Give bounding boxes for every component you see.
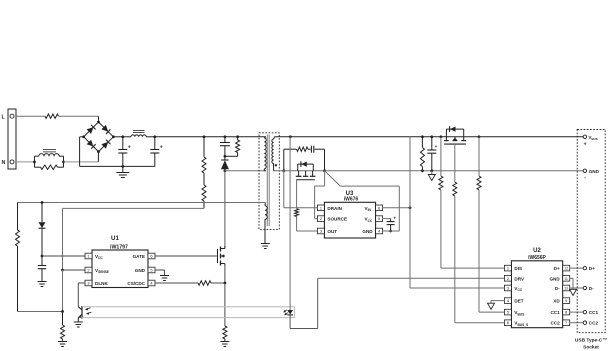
svg-text:Socket: Socket: [583, 344, 599, 350]
U2 pin label SD: [553, 299, 560, 304]
U1 pin label DLNK: [95, 281, 108, 286]
svg-text:CC1: CC1: [589, 310, 599, 315]
transformer T1 primary winding: [264, 137, 266, 171]
diode bridge D2 (top-right): [101, 125, 110, 134]
svg-text:USB Type-C™: USB Type-C™: [575, 337, 607, 343]
ground sense resistor: [220, 342, 229, 347]
wire sec bottom: [275, 170, 325, 172]
svg-text:6: 6: [150, 254, 152, 259]
svg-text:N: N: [2, 160, 6, 166]
wire to U2 vbus: [479, 190, 504, 312]
svg-text:11: 11: [564, 277, 568, 281]
junction sec bottom left: [282, 169, 285, 172]
svg-text:DIS: DIS: [514, 266, 522, 271]
svg-text:6: 6: [507, 320, 509, 325]
U3 part number: [344, 197, 359, 203]
ground U1 gnd pin: [160, 276, 169, 281]
inductor L2 filter: [123, 130, 146, 136]
wire N to bridge: [64, 152, 99, 162]
svg-text:3: 3: [507, 286, 509, 291]
terminal CC1: [583, 310, 598, 315]
svg-text:1: 1: [320, 205, 322, 210]
svg-text:1: 1: [507, 266, 509, 271]
capacitor C out: [427, 137, 437, 171]
wire U3 vcc: [383, 218, 391, 220]
junction U3 vcc cap gnd: [389, 230, 392, 233]
wire opto box right edge: [294, 307, 296, 318]
U3 pin label SOURCE: [327, 217, 347, 222]
wire L to bridge: [59, 116, 99, 122]
wire bridge out to rail: [113, 136, 122, 138]
transistor Q2 sync rect: [296, 161, 316, 180]
U1 pin 1 box: [85, 253, 92, 259]
svg-text:D-: D-: [555, 286, 560, 291]
svg-text:9: 9: [565, 298, 567, 303]
transistor Q1: [218, 246, 225, 266]
U1 pin label VCC: [95, 254, 103, 260]
capacitor C sr snubber: [308, 146, 325, 153]
svg-text:12: 12: [564, 267, 568, 271]
wire HV rail: [155, 136, 266, 138]
svg-text:5: 5: [378, 216, 380, 221]
diode D clamp: [221, 156, 229, 171]
svg-text:CC2: CC2: [550, 321, 560, 326]
svg-text:8: 8: [565, 310, 567, 315]
U2 pin label D+: [554, 266, 560, 271]
svg-text:5: 5: [150, 268, 152, 273]
wire U3 gnd: [383, 230, 400, 232]
U3 pin label OUT: [327, 229, 337, 234]
junction vin rail: [409, 206, 412, 209]
resistor R aux sense: [16, 203, 20, 312]
svg-text:3: 3: [87, 281, 89, 286]
terminal D-: [583, 286, 594, 291]
svg-text:2: 2: [87, 268, 89, 273]
capacitor C1 bulk: [118, 137, 131, 167]
U2 pin 12 box: [563, 265, 570, 271]
svg-text:GND: GND: [362, 229, 373, 234]
capacitor C U3 vcc: [387, 215, 397, 231]
capacitor C2 bulk: [146, 137, 163, 167]
diode opto LED: [287, 310, 293, 315]
junction sr source: [323, 169, 326, 172]
resistor R sr snubber: [297, 147, 309, 151]
op-amp U3 body: [324, 202, 375, 238]
junction clamp cap top: [224, 135, 227, 138]
wire sr gate lead: [296, 180, 298, 209]
ground secondary marker: [428, 171, 435, 181]
resistor R dummy load: [420, 137, 424, 171]
svg-text:U1: U1: [111, 235, 119, 242]
wire opto box top: [82, 306, 295, 308]
U2 pin 2 box: [504, 276, 511, 282]
wire aux line: [18, 202, 266, 204]
junction drain node: [224, 169, 227, 172]
inductor CM choke L1: [35, 150, 64, 168]
U3 label: [346, 191, 354, 197]
U2 pin 7 box: [563, 320, 570, 326]
junction dummy load top: [421, 135, 424, 138]
wire L line: [16, 115, 45, 117]
wire U3 vin: [383, 207, 410, 209]
junction cap C1 top: [121, 135, 124, 138]
wire opto box bottom: [82, 317, 295, 319]
resistor R vbus sense: [477, 137, 481, 190]
svg-text:iW676: iW676: [344, 197, 359, 203]
junction VBUS sense feed: [478, 135, 481, 138]
svg-text:7: 7: [565, 320, 567, 325]
transformer T1 aux winding: [265, 203, 267, 244]
U2 pin label GND: [549, 276, 560, 281]
svg-text:+: +: [160, 144, 163, 150]
wire U2 CC2: [570, 322, 584, 324]
resistor R snubber clamp: [225, 137, 240, 157]
optocoupler LED arrows: [283, 310, 288, 315]
svg-text:OUT: OUT: [327, 229, 337, 234]
svg-text:2: 2: [507, 276, 509, 281]
svg-text:SOURCE: SOURCE: [327, 217, 347, 222]
wire Q1 source: [224, 264, 226, 284]
resistor R dis divider: [439, 137, 443, 190]
ground primary earth: [116, 166, 129, 177]
wire gate res to out: [297, 217, 317, 232]
U3 pin 3 box: [317, 228, 324, 234]
wire U2 det to gnd: [491, 301, 504, 304]
U1 pin label GND: [135, 268, 146, 273]
junction vsense-aux: [61, 310, 64, 313]
resistor R vsense lower: [61, 312, 65, 342]
diode bridge D3 (left-bottom): [87, 140, 96, 149]
svg-text:U2: U2: [533, 248, 541, 254]
resistor R across choke: [35, 165, 64, 169]
U1 pin label CSCDC: [127, 281, 145, 286]
junction out cap top: [430, 135, 433, 138]
U1 pin 2 box: [85, 267, 92, 273]
wire to U2 dis: [441, 190, 505, 268]
ground vsense resistor: [58, 342, 67, 347]
U2 label: [533, 248, 541, 254]
svg-text:5: 5: [507, 310, 509, 315]
diode bridge D4 (bottom-right): [101, 140, 110, 149]
wire gate: [155, 255, 218, 257]
svg-text:DLNK: DLNK: [95, 281, 108, 286]
U2 pin 6 box: [504, 320, 511, 326]
wire U2 D-: [570, 287, 584, 289]
U2 pin 10 box: [563, 285, 570, 291]
junction clamp res top: [236, 135, 239, 138]
wire to U2 vbus_s: [455, 196, 505, 323]
ground U2 det: [488, 303, 495, 309]
USB Type-C socket dashed box: [577, 130, 605, 333]
svg-text:CS/CDC: CS/CDC: [127, 281, 145, 286]
U1 pin label VSENSE: [95, 268, 109, 274]
svg-text:GND: GND: [549, 276, 560, 281]
capacitor C snubber clamp: [220, 137, 230, 157]
U2 pin 9 box: [563, 298, 570, 304]
ground opto emitter: [74, 322, 83, 327]
terminal CC2: [583, 321, 598, 326]
wire primary bottom: [225, 170, 266, 172]
svg-text:CC2: CC2: [589, 321, 599, 326]
junction N filter right: [62, 161, 65, 164]
resistor Rln2: [202, 173, 206, 208]
wire VBUS rail: [275, 136, 584, 138]
svg-text:GND: GND: [135, 268, 146, 273]
wire drain to Q1: [224, 171, 226, 249]
junction aux-vcc: [41, 201, 44, 204]
wire vcc to U1: [42, 255, 85, 257]
op-amp U2 body: [511, 261, 562, 328]
ground vcc cap: [38, 282, 47, 287]
svg-text:iW1797: iW1797: [110, 244, 128, 250]
resistor R sr gate: [295, 209, 299, 217]
op-amp U1 body: [92, 250, 148, 288]
wire vin rail to U2 vcc: [410, 137, 504, 288]
U2 part number: [528, 255, 546, 261]
wire sr source to U3 gnd: [325, 171, 400, 231]
svg-text:1: 1: [87, 254, 89, 259]
junction cap C2 top: [153, 135, 156, 138]
U2 pin 8 box: [563, 309, 570, 315]
U2 pin label DRV: [514, 276, 525, 281]
U2 pin label CC2: [550, 321, 560, 326]
svg-text:DET: DET: [514, 299, 523, 304]
terminal GND: [583, 169, 599, 181]
wire U1 cs: [155, 282, 198, 284]
diode D vcc: [39, 203, 46, 257]
U3 pin 5 box: [376, 216, 383, 222]
bridge rectifier BR1: [82, 121, 115, 153]
svg-text:+: +: [435, 144, 438, 149]
optocoupler light arrows: [85, 308, 91, 315]
resistor R cs: [198, 281, 211, 285]
wire aux sense to vsense: [18, 311, 63, 313]
U3 pin label GND: [362, 229, 373, 234]
U2 pin label CC1: [550, 310, 560, 315]
svg-text:GATE: GATE: [133, 254, 145, 259]
junction N filter left: [33, 161, 36, 164]
svg-text:D-: D-: [589, 286, 594, 291]
wire dlnk to opto: [78, 283, 85, 307]
U1 label: [111, 235, 119, 242]
U1 pin label GATE: [133, 254, 145, 259]
transistor Q3 load switch: [444, 126, 466, 144]
wire U1 gnd: [155, 270, 165, 276]
node N label: [2, 160, 6, 166]
U2 pin label DET: [514, 299, 523, 304]
wire U3 source jog: [315, 171, 325, 219]
terminal VBUS: [583, 135, 598, 148]
U2 pin label VBUS: [514, 310, 524, 316]
transformer T1 secondary winding: [272, 137, 277, 171]
wire secondary gnd bus: [325, 170, 584, 172]
wire snubber left riser: [284, 149, 297, 171]
wire vbus to opto led: [289, 137, 291, 310]
junction out cap bottom: [430, 169, 433, 172]
svg-text:+: +: [584, 141, 587, 147]
U3 pin label VCC: [365, 217, 373, 223]
U1 pin 3 box: [85, 280, 92, 286]
junction vsense pin tap: [61, 269, 64, 272]
wire U2 gnd pin: [570, 278, 573, 289]
resistor R pmos gate: [453, 182, 457, 196]
U2 pin label VBUS_S: [514, 321, 528, 327]
U2 pin 11 box: [563, 276, 570, 282]
U3 pin label DRAIN: [327, 206, 342, 211]
U2 pin 5 box: [504, 309, 511, 315]
svg-text:+: +: [393, 215, 396, 220]
U2 pin label DIS: [514, 266, 522, 271]
svg-text:2: 2: [320, 216, 322, 221]
wire snubber right riser: [324, 149, 326, 171]
wire pmos gate lead: [454, 144, 456, 182]
svg-text:D+: D+: [554, 266, 560, 271]
junction clamp rc bottom: [224, 155, 227, 158]
svg-text:6: 6: [378, 205, 380, 210]
wire vsense line: [63, 208, 205, 270]
U1 pin 4 box: [148, 280, 155, 286]
U1 part number: [110, 244, 128, 250]
U1 pin 5 box: [148, 267, 155, 273]
junction dummy load bottom: [421, 169, 424, 172]
wire opto led cathode to DRV: [290, 278, 504, 328]
terminal D+: [583, 266, 595, 271]
U3 pin 4 box: [376, 228, 383, 234]
svg-text:DRAIN: DRAIN: [327, 206, 342, 211]
junction DIS feed: [440, 135, 443, 138]
U2 pin label VCC: [514, 286, 522, 292]
transformer T1 dashed box: [259, 133, 279, 230]
capacitor C vcc: [38, 256, 47, 282]
resistor Rln1: [202, 137, 206, 173]
optocoupler phototransistor: [78, 306, 82, 322]
svg-text:+: +: [128, 144, 131, 150]
fuse resistor F1: [45, 114, 59, 118]
transformer T1 core: [267, 135, 269, 227]
svg-text:3: 3: [320, 229, 322, 234]
U3 pin 6 box: [376, 205, 383, 211]
U2 pin 3 box: [504, 285, 511, 291]
U2 pin label D-: [555, 286, 560, 291]
U1 pin 6 box: [148, 253, 155, 259]
junction opto feed: [289, 135, 292, 138]
junction vcc node: [41, 255, 44, 258]
U3 pin label VIN: [365, 206, 372, 212]
svg-text:GND: GND: [589, 169, 600, 174]
U2 pin 1 box: [504, 265, 511, 271]
svg-text:DRV: DRV: [514, 276, 525, 281]
ground U2 gnd pin: [570, 289, 577, 295]
wire vsense lower: [62, 270, 64, 312]
wire U2 CC1: [570, 311, 584, 313]
resistor R sense: [223, 283, 227, 342]
wire bridge negative riser: [80, 137, 84, 167]
wire U2 D+: [570, 267, 584, 269]
svg-text:XD: XD: [553, 299, 560, 304]
wire U3 drain: [284, 171, 317, 208]
diode bridge D1 (left-top): [87, 125, 96, 134]
junction C1 bottom: [121, 165, 124, 168]
wire vsense to U1 pin2: [63, 269, 86, 271]
U3 pin 1 box: [317, 205, 324, 211]
USB socket label: [575, 337, 607, 350]
AC input terminal block J1: [8, 109, 16, 169]
U3 pin 2 box: [317, 216, 324, 222]
wire cs to source: [211, 282, 225, 284]
svg-text:CC1: CC1: [550, 310, 560, 315]
node L label: [2, 114, 6, 120]
junction divider top: [203, 135, 206, 138]
U2 pin 4 box: [504, 298, 511, 304]
svg-text:D+: D+: [589, 266, 595, 271]
junction cs node: [224, 282, 227, 285]
wire primary gnd bus: [80, 165, 155, 167]
ground aux winding: [261, 244, 270, 249]
svg-text:10: 10: [564, 287, 568, 291]
wire N line: [16, 161, 35, 163]
